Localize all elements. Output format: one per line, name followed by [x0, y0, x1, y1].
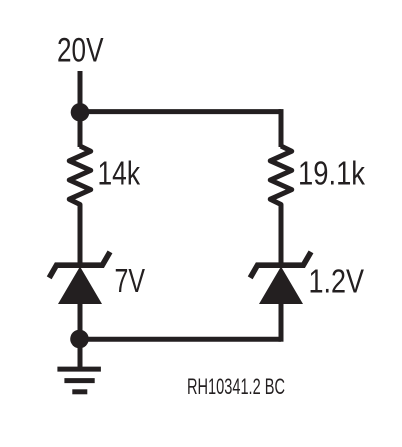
svg-text:19.1k: 19.1k: [298, 156, 365, 193]
wire: top rail from node A to right branch: [80, 109, 281, 114]
zener diode D1 anode triangle: [58, 267, 102, 305]
label 1.2V: [309, 264, 365, 301]
zener diode D1 cathode bar with bent ends: [49, 252, 110, 278]
label 14k: [98, 156, 141, 193]
label 19.1k: [298, 156, 365, 193]
node A junction dot: [71, 103, 90, 122]
resistor R2 19.1k: [270, 146, 292, 208]
wire: R1 to D1 cathode: [78, 206, 83, 263]
ground symbol bar 1: [57, 367, 101, 372]
wire: D1 anode to node B: [78, 302, 83, 340]
zener diode D2 anode triangle: [259, 267, 303, 305]
net 20V label: [57, 32, 104, 70]
wire: D2 anode to bottom rail: [279, 302, 284, 342]
zener diode D2 cathode bar with bent ends: [250, 252, 311, 278]
node B junction dot: [70, 330, 89, 349]
wire: 20V supply down to node A: [78, 71, 83, 113]
wire: node B down to ground: [78, 339, 83, 369]
svg-text:1.2V: 1.2V: [309, 264, 365, 301]
svg-text:20V: 20V: [57, 32, 104, 70]
wire: right branch vertical down to resistor R2: [279, 109, 284, 147]
wire: bottom rail from node B to right branch: [80, 337, 281, 342]
wire: R2 to D2 cathode: [279, 206, 284, 263]
svg-text:14k: 14k: [98, 156, 141, 193]
svg-text:RH10341.2 BC: RH10341.2 BC: [187, 374, 285, 399]
wire: node A down to resistor R1: [78, 112, 83, 147]
svg-text:7V: 7V: [115, 263, 146, 300]
label 7V: [115, 263, 146, 300]
ground symbol bar 2: [64, 378, 94, 383]
label RH10341.2 BC figure tag: [187, 374, 285, 399]
ground symbol bar 3: [72, 389, 87, 394]
resistor R1 14k: [69, 146, 91, 208]
